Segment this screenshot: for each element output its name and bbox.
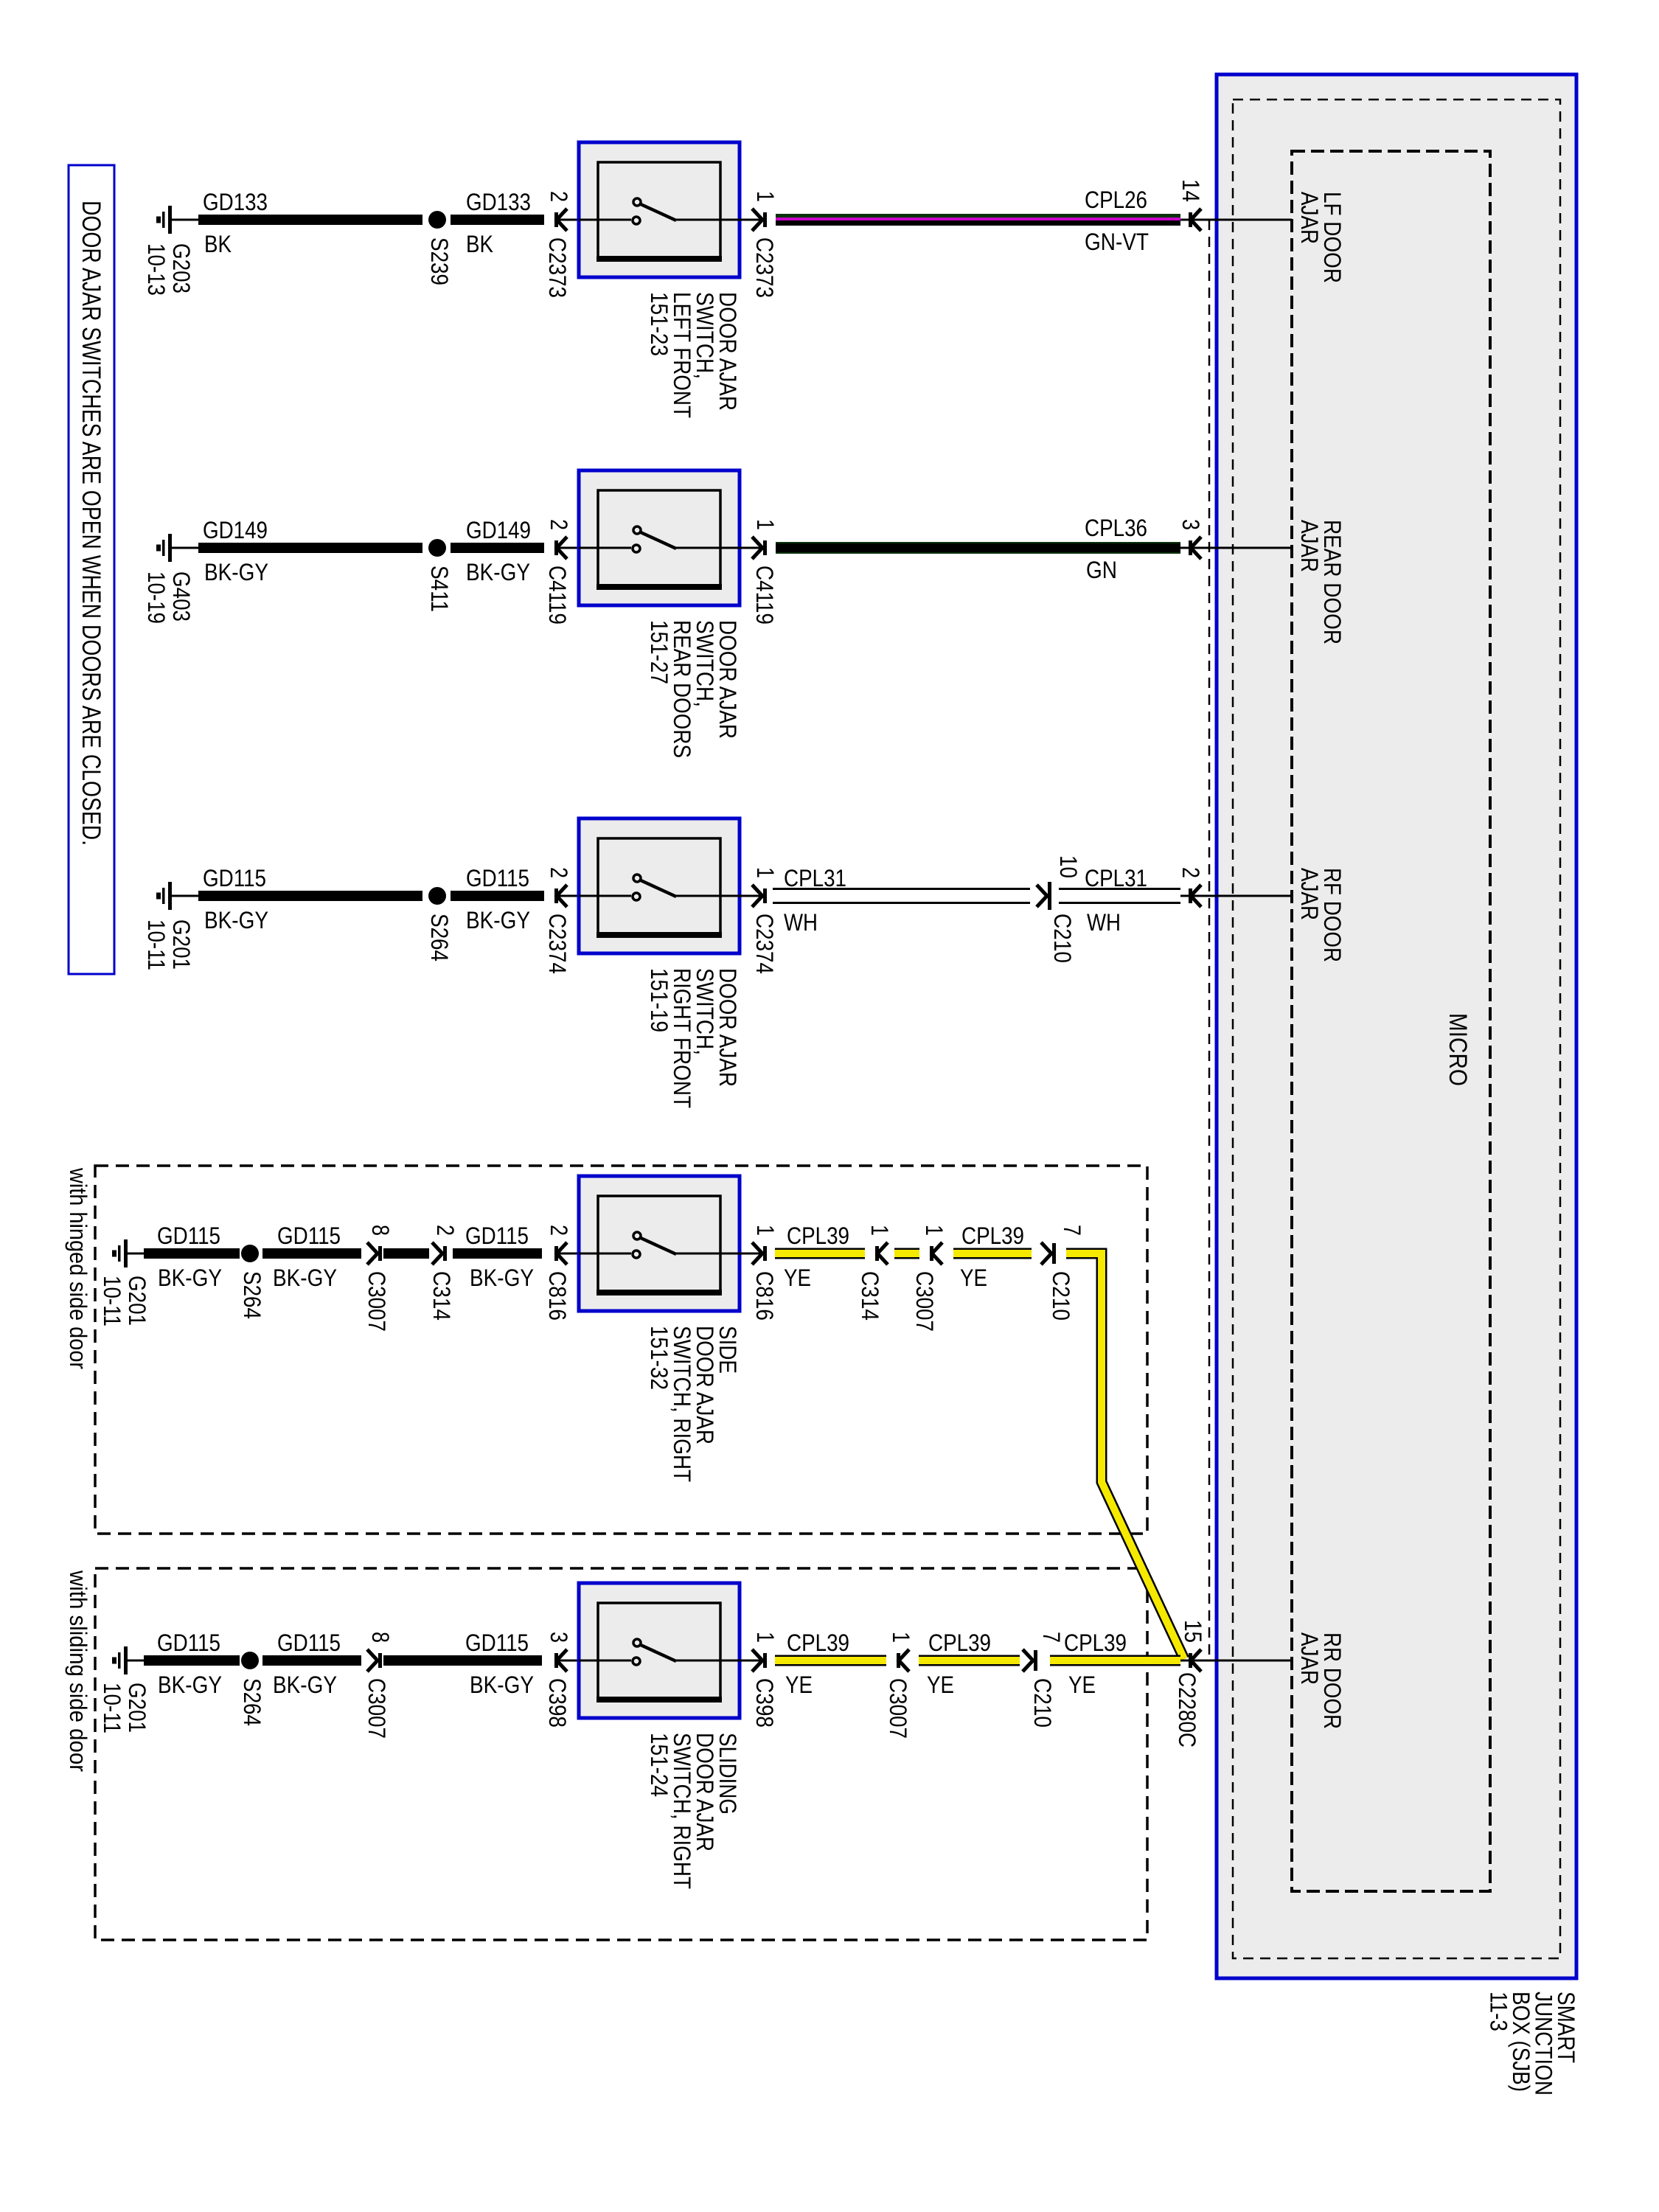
wire out of switch (row 5) [740, 1660, 762, 1662]
svg-text:C2374: C2374 [751, 914, 778, 974]
svg-text:GN: GN [1086, 557, 1117, 583]
svg-text:BK-GY: BK-GY [470, 1265, 534, 1291]
connector C2374 pin 2 female arrow [557, 885, 567, 907]
splice S264 (row 4) [241, 1245, 259, 1262]
svg-text:YE: YE [927, 1672, 954, 1698]
SJB connector C2280C pin 2 female arrow [1191, 885, 1201, 907]
wire GD133 BK segment 2 (row 1) [451, 215, 544, 225]
svg-text:C2280C: C2280C [1174, 1672, 1200, 1747]
svg-text:151-27: 151-27 [646, 620, 672, 684]
wire GD115 BK-GY segment 1 (row 5) [144, 1655, 240, 1666]
SJB stub line row 2 [1180, 547, 1292, 549]
svg-text:GD133: GD133 [203, 189, 268, 215]
short wire between C3007 and C314 [383, 1248, 429, 1259]
svg-text:3: 3 [1178, 519, 1204, 530]
wire GD149 BK-GY segment 2 (row 2) [451, 543, 544, 553]
svg-text:1: 1 [752, 191, 779, 202]
svg-text:151-32: 151-32 [646, 1326, 672, 1390]
door ajar switch (row 1) [579, 142, 740, 277]
door ajar switch (row 4) [579, 1176, 740, 1311]
svg-text:2: 2 [546, 867, 572, 878]
svg-text:WH: WH [784, 909, 818, 936]
svg-text:GD115: GD115 [277, 1630, 341, 1656]
connector C210 pin 7 male arrow (row 4) [1041, 1242, 1051, 1265]
svg-text:AJAR: AJAR [1296, 520, 1323, 572]
svg-text:S264: S264 [239, 1678, 265, 1726]
splice S264 (row 5) [241, 1652, 259, 1669]
svg-text:BK: BK [466, 231, 493, 257]
svg-text:BK-GY: BK-GY [470, 1672, 534, 1698]
svg-text:14: 14 [1178, 179, 1204, 202]
SJB outer dashed boundary [1233, 100, 1560, 1958]
connector C398 pin 3 female arrow [557, 1649, 567, 1672]
svg-text:C2373: C2373 [751, 237, 778, 298]
svg-text:CPL39: CPL39 [961, 1222, 1024, 1249]
svg-text:2: 2 [546, 191, 572, 202]
svg-text:CPL39: CPL39 [787, 1222, 849, 1249]
connector C3007 pin 1 female arrow (row 5) [899, 1649, 909, 1672]
connector C4119 pin 1 male arrow [752, 537, 762, 559]
smart junction box (SJB) outline [1217, 74, 1576, 1978]
wire GD115 BK-GY segment 3 (row 4) [453, 1248, 542, 1259]
wire into switch (row 2) [558, 547, 579, 549]
short yellow wire C314-C3007 [894, 1248, 919, 1259]
svg-text:10-11: 10-11 [99, 1276, 125, 1326]
door ajar switch (row 5) [579, 1583, 740, 1718]
wire into switch (row 3) [558, 895, 579, 897]
svg-text:10-11: 10-11 [99, 1683, 125, 1733]
svg-text:C210: C210 [1048, 1271, 1074, 1321]
svg-text:3: 3 [546, 1632, 572, 1643]
ground G201 (row 4) [124, 1239, 128, 1267]
wire CPL26 GN-VT [776, 214, 1180, 218]
svg-text:C3007: C3007 [885, 1678, 911, 1739]
group box: with sliding side door [95, 1568, 1147, 1940]
svg-text:GN-VT: GN-VT [1085, 229, 1149, 255]
svg-text:7: 7 [1059, 1225, 1085, 1236]
wire CPL31 WH segment 1 [773, 888, 1030, 890]
wire GD115 BK-GY segment 2 (row 3) [451, 891, 544, 901]
wire into switch (row 5) [558, 1660, 579, 1662]
wire into switch (row 4) [558, 1253, 579, 1255]
svg-text:G201: G201 [124, 1683, 150, 1733]
wire GD115 BK-GY segment 2 (row 5) [262, 1655, 361, 1666]
svg-text:8: 8 [367, 1225, 394, 1236]
wire out of switch (row 3) [740, 895, 762, 897]
svg-text:C398: C398 [751, 1678, 778, 1728]
connector C3007 pin 1 female arrow (row 4) [932, 1242, 942, 1265]
wire CPL39 YE segment 2 (row 4) [953, 1248, 1032, 1259]
svg-text:YE: YE [784, 1265, 811, 1291]
svg-text:AJAR: AJAR [1296, 192, 1323, 244]
svg-text:YE: YE [1068, 1672, 1096, 1698]
svg-text:2: 2 [432, 1225, 459, 1236]
svg-text:C4119: C4119 [544, 566, 571, 625]
connector C816 pin 1 male arrow [752, 1242, 762, 1265]
SJB stub line row 3 [1180, 895, 1292, 897]
wire CPL39 YE segment 1 (row 4) [775, 1248, 865, 1259]
connector C398 pin 1 male arrow [752, 1649, 762, 1672]
connector C4119 pin 2 female arrow [557, 537, 567, 559]
svg-text:C816: C816 [544, 1271, 571, 1321]
connector C3007 pin 8 male arrow (row 4) [367, 1242, 378, 1265]
ground G403 (row 2) [168, 534, 172, 562]
svg-text:1: 1 [752, 1632, 779, 1643]
svg-text:GD149: GD149 [466, 517, 531, 543]
svg-text:8: 8 [367, 1632, 394, 1643]
svg-text:CPL36: CPL36 [1085, 515, 1147, 541]
wire GD115 BK-GY segment 1 (row 4) [144, 1248, 240, 1259]
svg-text:CPL31: CPL31 [784, 865, 846, 891]
SJB stub line row 5 [1180, 1660, 1292, 1662]
svg-text:151-24: 151-24 [646, 1733, 672, 1797]
group box: with hinged side door [95, 1166, 1147, 1534]
svg-text:MICRO: MICRO [1444, 1013, 1472, 1086]
wire CPL39 YE segment 3 (row 5) [1050, 1655, 1180, 1666]
ground G203 (row 1) [168, 206, 172, 234]
svg-text:YE: YE [960, 1265, 987, 1291]
svg-text:G403: G403 [168, 571, 195, 622]
svg-text:10: 10 [1055, 855, 1082, 878]
svg-text:G201: G201 [124, 1276, 150, 1326]
svg-text:C314: C314 [428, 1271, 455, 1321]
door ajar switch (row 3) [579, 818, 740, 953]
splice S239 [428, 211, 446, 229]
svg-text:GD115: GD115 [157, 1222, 220, 1249]
svg-text:GD149: GD149 [203, 517, 268, 543]
SJB connector C2280C pin 14 female arrow [1191, 209, 1201, 231]
svg-text:C3007: C3007 [364, 1678, 390, 1739]
svg-text:CPL31: CPL31 [1085, 865, 1147, 891]
svg-text:GD115: GD115 [465, 1630, 529, 1656]
connector C314 pin 2 male arrow [432, 1242, 442, 1265]
svg-text:1: 1 [921, 1225, 947, 1236]
connector C2373 pin 2 female arrow [557, 209, 567, 231]
door ajar switch (row 2) [579, 470, 740, 605]
SJB stub line row 1 [1180, 219, 1292, 221]
wire GD149 BK-GY segment 1 (row 2) [198, 543, 422, 553]
note box: DOOR AJAR SWITCHES ARE OPEN WHEN DOORS ARE CLOSED. [69, 165, 114, 974]
wire CPL36 GN [776, 542, 1180, 554]
svg-text:151-19: 151-19 [646, 968, 672, 1032]
svg-text:GD115: GD115 [466, 865, 529, 891]
svg-text:YE: YE [785, 1672, 813, 1698]
SJB connector C2280C pin 3 female arrow [1191, 537, 1201, 559]
svg-text:CPL26: CPL26 [1085, 187, 1147, 213]
svg-text:GD115: GD115 [203, 865, 266, 891]
wire CPL39 YE segment 1 (row 5) [775, 1655, 886, 1666]
wire GD115 BK-GY segment 3 (row 5) [383, 1655, 542, 1666]
svg-text:1: 1 [888, 1632, 914, 1643]
svg-text:C816: C816 [751, 1271, 778, 1321]
svg-text:C4119: C4119 [751, 566, 778, 625]
wire GD133 BK segment 1 (row 1) [198, 215, 422, 225]
svg-text:AJAR: AJAR [1296, 868, 1323, 920]
svg-text:C3007: C3007 [911, 1271, 938, 1332]
svg-text:G203: G203 [168, 243, 195, 293]
wire CPL39 YE bend down to row 5 (shared yellow run) [1066, 1253, 1184, 1659]
svg-text:C2373: C2373 [544, 237, 571, 298]
svg-text:1: 1 [752, 867, 779, 878]
connector C3007 pin 8 male arrow (row 5) [367, 1649, 378, 1672]
ground G201 (row 5) [124, 1646, 128, 1674]
svg-text:C210: C210 [1049, 914, 1076, 963]
connector C2373 pin 1 male arrow [752, 209, 762, 231]
svg-text:GD115: GD115 [465, 1222, 529, 1249]
connector C816 pin 2 female arrow [557, 1242, 567, 1265]
svg-text:10-13: 10-13 [143, 243, 170, 296]
wire CPL31 WH segment 2 [1059, 888, 1180, 890]
ground G201 (row 3) [168, 882, 172, 910]
svg-text:151-23: 151-23 [646, 292, 672, 356]
svg-text:G201: G201 [168, 919, 195, 970]
svg-text:11-3: 11-3 [1486, 1992, 1512, 2031]
svg-text:BK-GY: BK-GY [466, 907, 530, 933]
splice S264 [428, 887, 446, 905]
wire GD115 BK-GY segment 2 (row 4) [262, 1248, 361, 1259]
connector line C2280C (dashed) [1208, 220, 1211, 1660]
MICRO block dashed boundary [1292, 151, 1490, 1891]
wire out of switch (row 2) [740, 547, 762, 549]
svg-text:BK-GY: BK-GY [158, 1265, 222, 1291]
svg-text:15: 15 [1180, 1620, 1206, 1643]
svg-text:DOOR AJAR SWITCHES ARE OPEN WH: DOOR AJAR SWITCHES ARE OPEN WHEN DOORS A… [77, 201, 105, 846]
svg-text:AJAR: AJAR [1296, 1632, 1323, 1685]
SJB connector C2280C pin 15 female arrow [1191, 1649, 1201, 1672]
svg-text:S264: S264 [426, 914, 453, 961]
svg-text:2: 2 [546, 1225, 572, 1236]
svg-text:BK-GY: BK-GY [204, 907, 268, 933]
svg-text:S411: S411 [426, 566, 453, 612]
connector C314 pin 1 female arrow [877, 1242, 888, 1265]
svg-text:C314: C314 [857, 1271, 883, 1321]
wire into switch (row 1) [558, 219, 579, 221]
svg-text:CPL39: CPL39 [928, 1630, 991, 1656]
svg-text:2: 2 [1178, 867, 1204, 878]
svg-text:GD115: GD115 [157, 1630, 220, 1656]
svg-text:1: 1 [866, 1225, 893, 1236]
svg-text:BK-GY: BK-GY [273, 1672, 337, 1698]
svg-text:C210: C210 [1029, 1678, 1056, 1728]
svg-text:C398: C398 [544, 1678, 571, 1728]
svg-text:1: 1 [752, 1225, 779, 1236]
svg-text:with sliding side door: with sliding side door [65, 1570, 91, 1772]
svg-text:S264: S264 [239, 1271, 265, 1319]
svg-text:BK-GY: BK-GY [466, 559, 530, 585]
svg-text:10-19: 10-19 [143, 571, 170, 624]
svg-text:BK-GY: BK-GY [273, 1265, 337, 1291]
svg-text:BK-GY: BK-GY [158, 1672, 222, 1698]
svg-text:BK-GY: BK-GY [204, 559, 268, 585]
wire CPL39 YE segment 2 (row 5) [919, 1655, 1020, 1666]
svg-text:CPL39: CPL39 [1064, 1630, 1127, 1656]
svg-text:WH: WH [1087, 909, 1121, 936]
connector C210 pin 10 male arrow [1037, 885, 1047, 907]
svg-text:C2374: C2374 [544, 914, 571, 974]
connector C210 pin 7 male arrow (row 5) [1023, 1649, 1033, 1672]
svg-text:7: 7 [1038, 1632, 1065, 1643]
svg-text:GD133: GD133 [466, 189, 531, 215]
svg-text:S239: S239 [426, 237, 453, 285]
svg-text:with hinged side door: with hinged side door [65, 1167, 91, 1369]
wire GD115 BK-GY segment 1 (row 3) [198, 891, 422, 901]
svg-text:2: 2 [546, 519, 572, 530]
wire out of switch (row 1) [740, 219, 762, 221]
svg-text:BK: BK [204, 231, 232, 257]
splice S411 [428, 539, 446, 557]
wire out of switch (row 4) [740, 1253, 762, 1255]
svg-text:1: 1 [752, 519, 779, 530]
svg-text:C3007: C3007 [364, 1271, 390, 1332]
svg-text:10-11: 10-11 [143, 919, 170, 970]
svg-text:CPL39: CPL39 [787, 1630, 849, 1656]
connector C2374 pin 1 male arrow [752, 885, 762, 907]
svg-text:GD115: GD115 [277, 1222, 341, 1249]
